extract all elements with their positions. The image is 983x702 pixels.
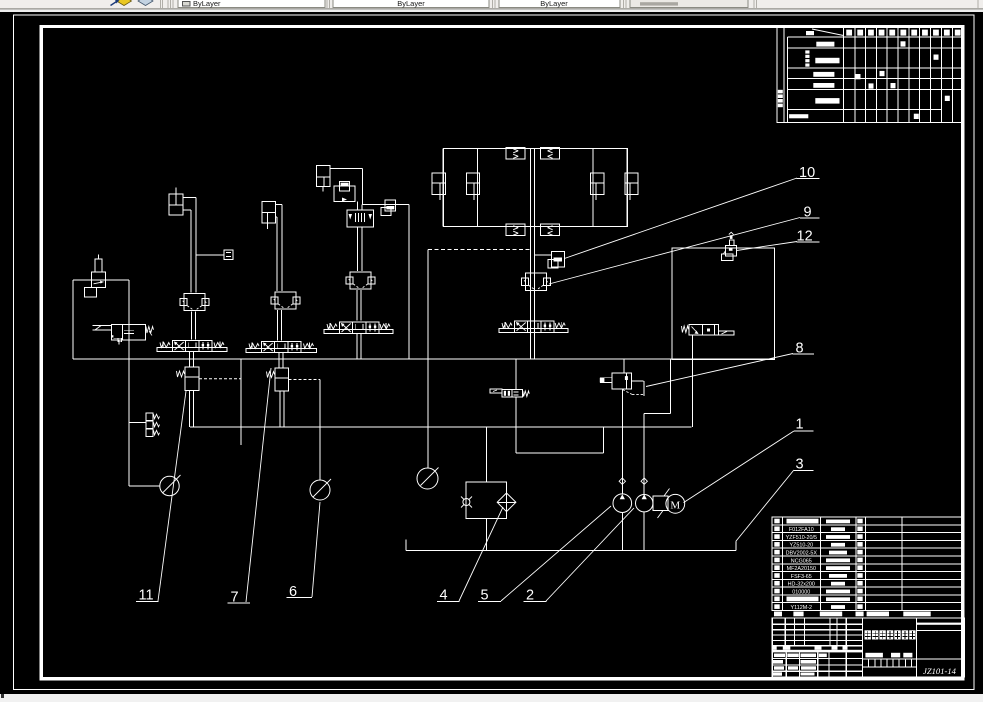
svg-text:010000: 010000 [792, 589, 810, 595]
svg-text:Y112M-2: Y112M-2 [791, 605, 812, 611]
svg-text:ByLayer: ByLayer [397, 0, 425, 8]
svg-text:DBV2002-5X: DBV2002-5X [786, 551, 818, 557]
svg-text:ByLayer: ByLayer [193, 0, 221, 8]
svg-text:HD-32x200: HD-32x200 [788, 582, 815, 588]
svg-text:F012FA10: F012FA10 [789, 527, 814, 533]
svg-text:JZ101-14: JZ101-14 [923, 666, 957, 676]
svg-text:1: 1 [796, 417, 804, 433]
svg-text:NCG065: NCG065 [791, 558, 812, 564]
svg-text:YZF510-20/5: YZF510-20/5 [786, 535, 817, 541]
svg-text:ByLayer: ByLayer [540, 0, 568, 8]
svg-text:FSF3-65: FSF3-65 [791, 574, 812, 580]
svg-text:MF2A20150: MF2A20150 [787, 566, 816, 572]
svg-text:YZ510-20: YZ510-20 [789, 543, 813, 549]
svg-text:M: M [670, 500, 680, 512]
